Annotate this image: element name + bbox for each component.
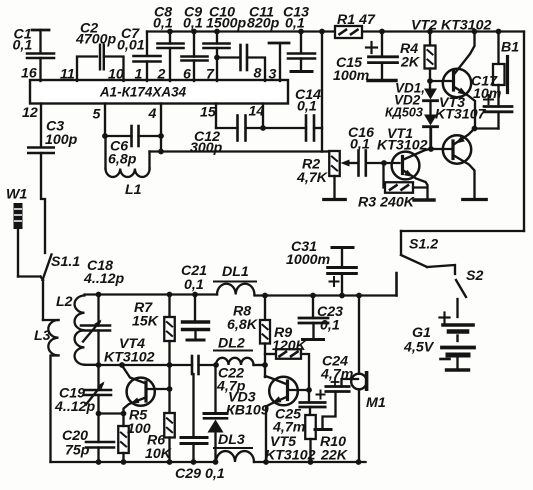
svg-text:6,8p: 6,8p (108, 152, 137, 168)
svg-text:0,1: 0,1 (285, 16, 305, 32)
svg-text:820p: 820p (247, 16, 280, 32)
svg-text:4..12p: 4..12p (54, 399, 96, 415)
svg-text:КД503: КД503 (385, 106, 423, 120)
svg-text:6: 6 (183, 67, 191, 83)
svg-text:7: 7 (206, 67, 215, 83)
svg-text:KT3107: KT3107 (435, 107, 487, 123)
svg-text:0,1: 0,1 (184, 277, 204, 293)
svg-text:S1.1: S1.1 (51, 254, 80, 270)
svg-text:10m: 10m (473, 86, 502, 102)
svg-text:0,1: 0,1 (297, 99, 317, 115)
svg-text:0,01: 0,01 (117, 38, 145, 54)
svg-text:L2: L2 (56, 294, 73, 310)
svg-text:2: 2 (157, 67, 166, 83)
svg-text:DL3: DL3 (218, 432, 245, 448)
svg-text:8: 8 (254, 66, 262, 82)
svg-text:КВ109: КВ109 (226, 403, 269, 419)
svg-text:15K: 15K (132, 314, 160, 330)
svg-text:B1: B1 (501, 40, 519, 56)
svg-text:10: 10 (108, 67, 124, 83)
svg-text:0,1: 0,1 (153, 16, 173, 32)
svg-text:R1 47: R1 47 (337, 12, 376, 28)
svg-text:1: 1 (135, 67, 143, 83)
svg-text:120K: 120K (272, 338, 308, 354)
svg-text:DL2: DL2 (218, 336, 245, 352)
svg-text:0,1: 0,1 (183, 16, 203, 32)
svg-text:5: 5 (93, 107, 102, 123)
svg-text:R3 240K: R3 240K (358, 195, 416, 211)
svg-text:11: 11 (60, 67, 75, 83)
svg-text:KT3102: KT3102 (104, 350, 155, 366)
svg-text:1500p: 1500p (206, 16, 247, 32)
svg-text:4: 4 (148, 106, 157, 122)
svg-text:100p: 100p (45, 132, 78, 148)
svg-text:KT3102: KT3102 (265, 448, 316, 464)
svg-text:C29 0,1: C29 0,1 (175, 466, 225, 482)
svg-text:S2: S2 (466, 268, 483, 284)
svg-text:14: 14 (249, 104, 265, 120)
svg-text:M1: M1 (366, 395, 386, 411)
svg-text:VT2 KT3102: VT2 KT3102 (411, 18, 492, 34)
svg-text:0,1: 0,1 (320, 318, 340, 334)
svg-text:DL1: DL1 (222, 264, 249, 280)
svg-text:2K: 2K (400, 55, 421, 71)
svg-text:KT3102: KT3102 (377, 138, 428, 154)
svg-text:0,1: 0,1 (350, 137, 370, 153)
svg-text:16: 16 (21, 66, 37, 82)
svg-text:4700p: 4700p (75, 32, 117, 48)
svg-text:L1: L1 (125, 182, 142, 198)
svg-text:4..12p: 4..12p (83, 271, 125, 287)
svg-text:12: 12 (22, 105, 38, 121)
svg-text:W1: W1 (6, 187, 27, 203)
svg-text:15: 15 (200, 105, 217, 121)
svg-text:75p: 75p (65, 443, 90, 459)
svg-text:L3: L3 (34, 328, 51, 344)
svg-text:100m: 100m (333, 68, 370, 84)
svg-text:A1-К174ХА34: A1-К174ХА34 (99, 85, 187, 100)
svg-text:4,7K: 4,7K (296, 170, 329, 186)
svg-text:6,8K: 6,8K (227, 317, 259, 333)
svg-text:22K: 22K (320, 448, 349, 464)
svg-text:3: 3 (269, 67, 277, 83)
svg-text:1000m: 1000m (286, 252, 331, 268)
svg-text:10K: 10K (145, 446, 173, 462)
svg-text:S1.2: S1.2 (409, 237, 438, 253)
svg-text:4,7m: 4,7m (320, 367, 354, 383)
svg-text:4,5V: 4,5V (403, 340, 435, 356)
svg-text:0,1: 0,1 (13, 38, 33, 54)
svg-text:300p: 300p (190, 140, 223, 156)
